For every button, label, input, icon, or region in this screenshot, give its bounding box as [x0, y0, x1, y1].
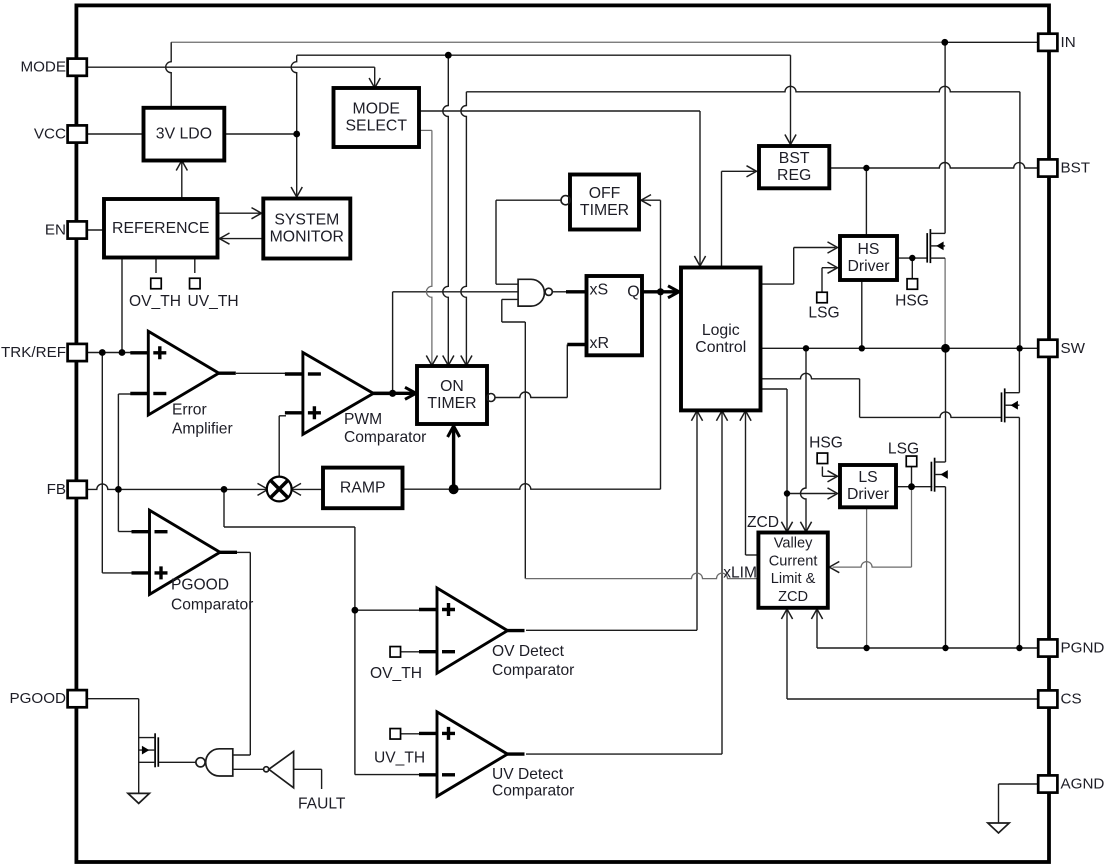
svg-text:LSG: LSG	[808, 305, 839, 322]
svg-text:HS: HS	[858, 241, 880, 258]
svg-text:RAMP: RAMP	[340, 479, 386, 496]
svg-text:Valley: Valley	[774, 535, 813, 551]
svg-text:LSG: LSG	[888, 441, 919, 458]
svg-text:Control: Control	[695, 339, 746, 356]
svg-text:UV Detect: UV Detect	[492, 766, 564, 783]
svg-text:AGND: AGND	[1061, 776, 1105, 793]
svg-text:Limit &: Limit &	[771, 571, 816, 587]
svg-text:EN: EN	[45, 222, 66, 239]
svg-text:PGND: PGND	[1061, 640, 1105, 657]
svg-text:REG: REG	[777, 167, 811, 184]
svg-text:LS: LS	[858, 469, 877, 486]
svg-text:UV_TH: UV_TH	[188, 293, 239, 310]
svg-text:HSG: HSG	[809, 435, 843, 452]
svg-text:Driver: Driver	[847, 258, 889, 275]
svg-text:Amplifier: Amplifier	[172, 421, 233, 438]
svg-text:Comparator: Comparator	[492, 662, 574, 679]
svg-text:SW: SW	[1061, 340, 1086, 357]
svg-text:BST: BST	[1061, 160, 1091, 177]
svg-text:OV_TH: OV_TH	[129, 293, 181, 310]
svg-text:CS: CS	[1061, 691, 1082, 708]
svg-text:MODE: MODE	[353, 101, 400, 118]
svg-text:FAULT: FAULT	[298, 796, 346, 813]
svg-text:SELECT: SELECT	[346, 118, 408, 135]
svg-text:Comparator: Comparator	[171, 597, 253, 614]
svg-text:xS: xS	[590, 282, 609, 299]
svg-text:TRK/REF: TRK/REF	[1, 344, 66, 361]
svg-text:PWM: PWM	[344, 411, 382, 428]
svg-text:xLIM: xLIM	[723, 565, 757, 582]
svg-text:ON: ON	[440, 378, 464, 395]
svg-text:TIMER: TIMER	[580, 202, 629, 219]
svg-text:HSG: HSG	[895, 293, 929, 310]
svg-text:FB: FB	[47, 481, 66, 498]
svg-text:PGOOD: PGOOD	[9, 690, 66, 707]
svg-text:Comparator: Comparator	[492, 783, 574, 800]
svg-text:PGOOD: PGOOD	[171, 577, 229, 594]
svg-text:Error: Error	[172, 402, 207, 419]
svg-text:Logic: Logic	[702, 322, 740, 339]
svg-text:UV_TH: UV_TH	[374, 750, 425, 767]
svg-text:ZCD: ZCD	[778, 589, 808, 605]
svg-text:REFERENCE: REFERENCE	[112, 220, 209, 237]
svg-text:Current: Current	[769, 553, 818, 569]
svg-text:VCC: VCC	[34, 126, 66, 143]
svg-text:OV_TH: OV_TH	[370, 665, 422, 682]
svg-text:Comparator: Comparator	[344, 429, 426, 446]
svg-text:3V LDO: 3V LDO	[156, 126, 212, 143]
svg-text:MONITOR: MONITOR	[270, 229, 344, 246]
svg-text:Driver: Driver	[847, 486, 889, 503]
svg-text:BST: BST	[779, 150, 810, 167]
svg-text:IN: IN	[1061, 34, 1076, 51]
svg-text:SYSTEM: SYSTEM	[274, 212, 339, 229]
svg-text:ZCD: ZCD	[747, 514, 779, 531]
svg-text:TIMER: TIMER	[427, 395, 476, 412]
svg-text:OV Detect: OV Detect	[492, 643, 565, 660]
svg-text:Q: Q	[627, 284, 639, 301]
svg-text:MODE: MODE	[20, 59, 66, 76]
svg-text:xR: xR	[590, 335, 610, 352]
svg-text:OFF: OFF	[589, 185, 621, 202]
